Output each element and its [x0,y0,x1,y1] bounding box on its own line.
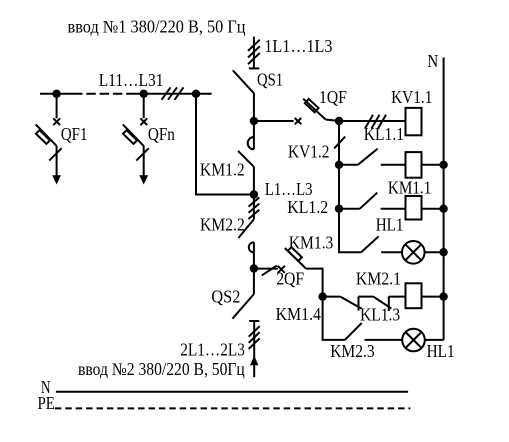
svg-text:KL1.1: KL1.1 [364,124,404,144]
svg-text:QFn: QFn [148,124,175,144]
svg-text:QS2: QS2 [211,286,240,306]
svg-text:KM2.3: KM2.3 [330,341,375,361]
svg-text:2L1…2L3: 2L1…2L3 [180,339,245,359]
svg-text:HL1: HL1 [376,215,404,235]
svg-text:ввод №1 380/220 В, 50 Гц: ввод №1 380/220 В, 50 Гц [68,17,246,37]
svg-text:KM2.1: KM2.1 [356,269,401,289]
svg-text:KV1.2: KV1.2 [288,142,329,162]
svg-text:KM2.2: KM2.2 [200,215,245,235]
svg-text:2QF: 2QF [276,269,304,289]
svg-text:KV1.1: KV1.1 [391,87,432,107]
svg-text:KM1.2: KM1.2 [200,159,245,179]
svg-text:ввод №2 380/220 В, 50Гц: ввод №2 380/220 В, 50Гц [78,359,245,379]
svg-text:HL1: HL1 [427,341,455,361]
svg-text:QS1: QS1 [257,70,283,90]
svg-text:QF1: QF1 [61,124,88,144]
svg-text:1L1…1L3: 1L1…1L3 [264,36,332,56]
svg-text:KL1.3: KL1.3 [360,305,400,325]
svg-text:PE: PE [38,393,55,413]
svg-text:L1…L3: L1…L3 [265,179,313,199]
svg-text:1QF: 1QF [319,87,347,107]
svg-text:KM1.1: KM1.1 [388,177,431,197]
svg-text:KL1.2: KL1.2 [287,197,328,217]
svg-text:N: N [427,51,438,71]
svg-text:KM1.4: KM1.4 [276,304,322,324]
svg-text:KM1.3: KM1.3 [289,232,334,252]
svg-text:L11…L31: L11…L31 [99,70,164,90]
